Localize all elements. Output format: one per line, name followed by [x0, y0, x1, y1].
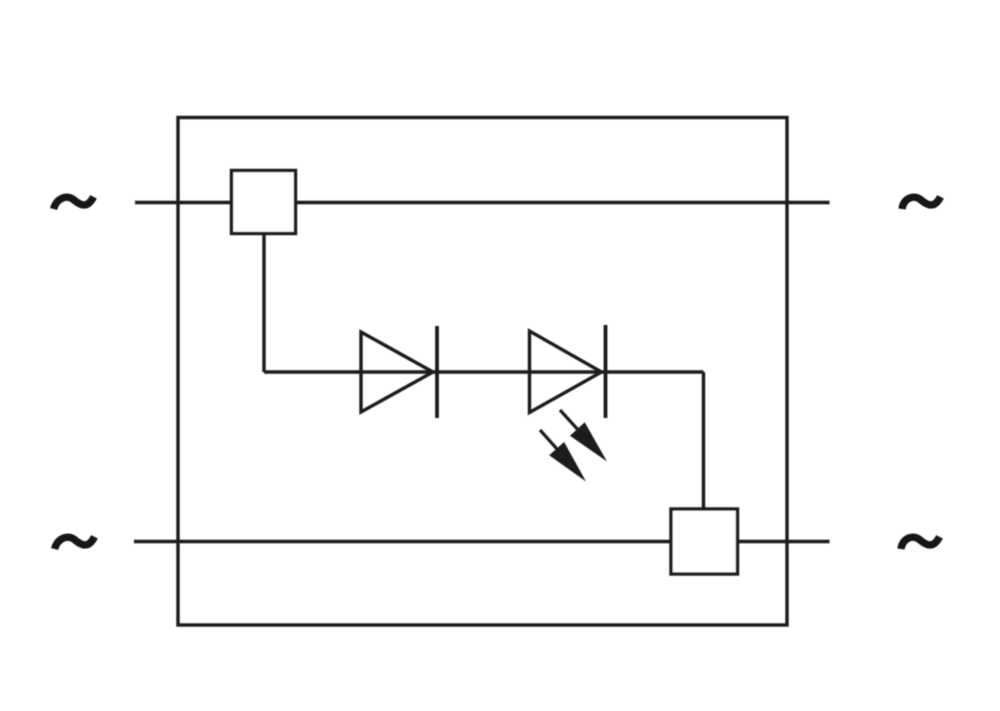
wire bottom AC line [134, 540, 830, 543]
AC tilde bottom-right [901, 537, 940, 549]
AC tilde top-left [54, 197, 94, 209]
AC tilde bottom-left [55, 537, 95, 549]
wire down to X2 [702, 372, 705, 509]
terminal X2 [671, 509, 738, 574]
diode D1 triangle [361, 332, 433, 412]
terminal X1 [232, 171, 296, 234]
wire top AC line [135, 201, 830, 204]
AC tilde top-right [902, 197, 941, 209]
LED V1 triangle [530, 331, 602, 413]
diode D1 cathode bar [435, 326, 439, 418]
LED emission arrow 1 [560, 410, 607, 462]
LED emission arrow 2 [540, 430, 586, 482]
wire middle horizontal [264, 370, 704, 373]
wire from X1 down [262, 234, 265, 373]
LED V1 cathode bar [604, 325, 608, 418]
enclosure box [178, 118, 787, 626]
